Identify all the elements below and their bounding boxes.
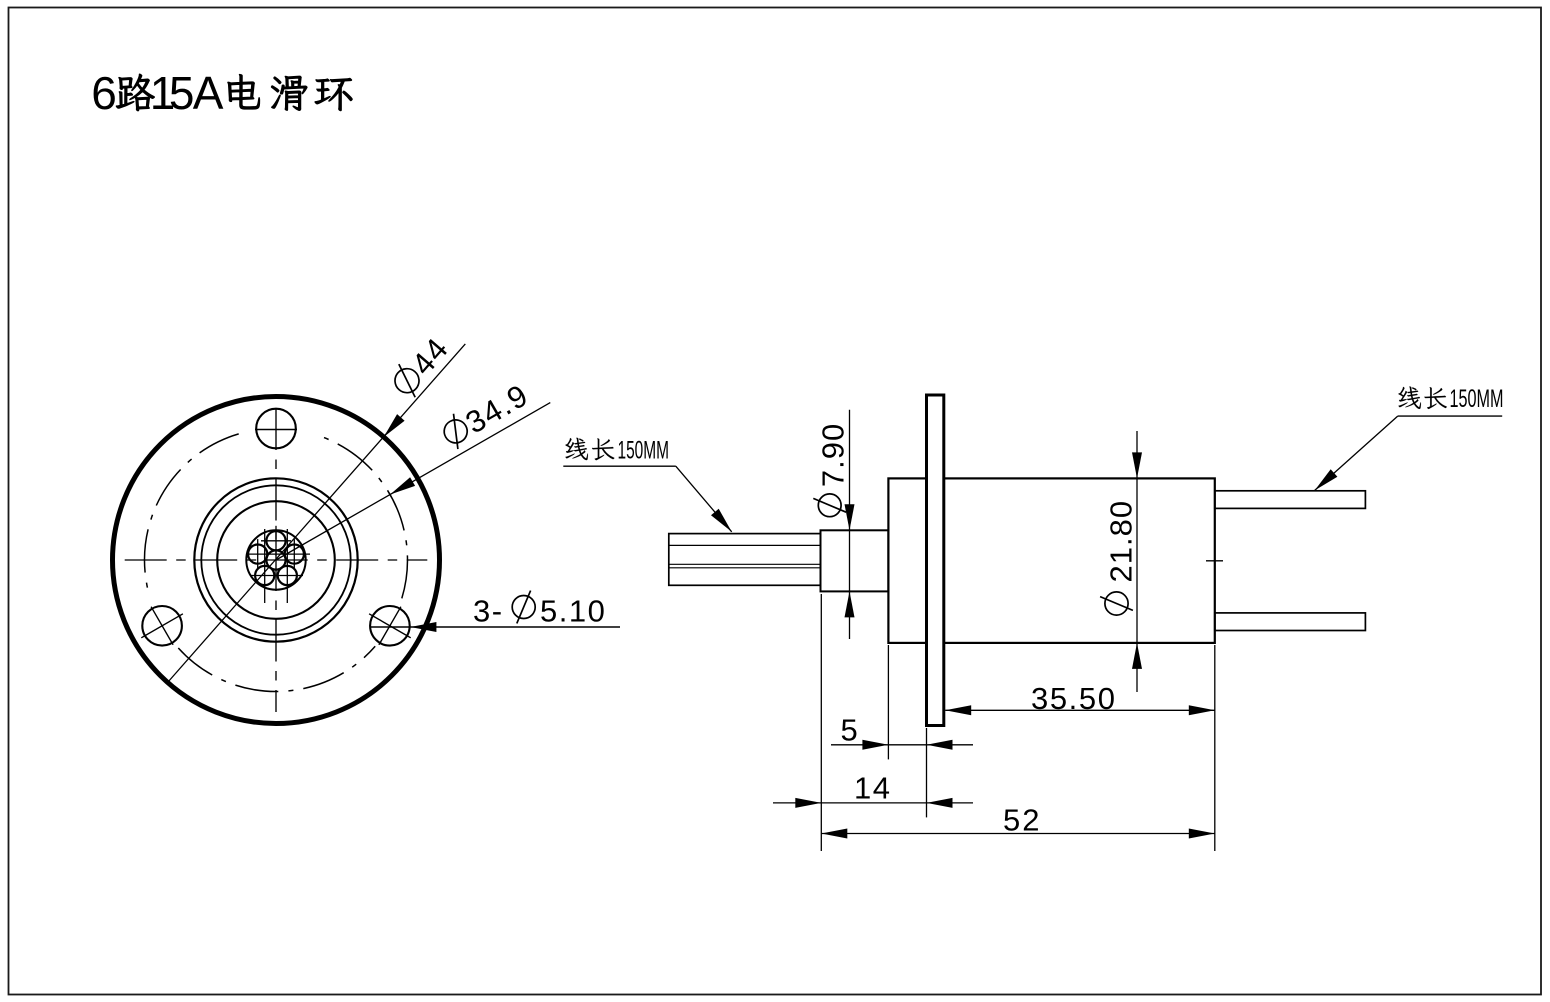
front view: top bolt hole xyxy=(255,409,297,449)
label wire length 150MM right xyxy=(1315,385,1504,490)
label wire length 150MM left xyxy=(563,437,731,532)
dimension leader D34.9 xyxy=(276,377,550,560)
svg-text:5: 5 xyxy=(169,67,195,119)
extension line shaft-left xyxy=(820,594,822,851)
svg-text:6: 6 xyxy=(91,67,117,119)
front view: lower-right bolt hole xyxy=(369,606,411,646)
extension line body-left xyxy=(887,645,889,759)
svg-text:14: 14 xyxy=(854,771,891,806)
dimension 35.50 xyxy=(945,681,1215,716)
front view: inner circle 2 xyxy=(217,501,335,619)
dimension D21.80 xyxy=(1100,431,1142,692)
front view: lower-left bolt hole xyxy=(141,606,183,646)
svg-text:52: 52 xyxy=(1003,803,1041,838)
side view: centerline tick at right edge xyxy=(1206,560,1223,562)
svg-text:3-: 3- xyxy=(473,594,504,629)
side view: body cylinder xyxy=(888,478,1214,643)
dimension leader D44 xyxy=(168,330,465,682)
front view: inner circle xyxy=(201,485,350,634)
side view: shaft collar D7.9 xyxy=(821,530,889,591)
front view: flange outer circle D44 xyxy=(113,397,440,724)
front view: body circle D21.8 xyxy=(194,478,357,641)
front view: horizontal centerline xyxy=(125,559,428,561)
title text: 6路15A电滑环 xyxy=(91,67,352,119)
svg-text:7.90: 7.90 xyxy=(816,423,851,487)
svg-text:35.50: 35.50 xyxy=(1031,681,1117,716)
extension line flange-left xyxy=(926,728,928,817)
svg-text:150MM: 150MM xyxy=(618,437,670,465)
svg-text:5: 5 xyxy=(841,713,858,748)
dimension 14 xyxy=(773,771,973,808)
front view: bolt circle D34.9 dash-dot xyxy=(144,434,407,692)
extension line body-right xyxy=(1214,645,1216,851)
dimension 5 xyxy=(831,713,973,750)
svg-text:A: A xyxy=(193,67,224,119)
front view: wire cross lines xyxy=(246,526,310,603)
front view: wire cluster circle xyxy=(246,530,305,589)
dimension D7.90 xyxy=(813,410,854,639)
svg-text:21.80: 21.80 xyxy=(1104,500,1139,583)
front view: vertical centerline xyxy=(275,408,277,712)
svg-text:150MM: 150MM xyxy=(1450,385,1504,413)
front view: six wire circles xyxy=(248,531,304,585)
side view: flange plate edge-on xyxy=(927,395,944,726)
side view: left wire bundle xyxy=(669,534,821,586)
side view: right top wire xyxy=(1215,491,1366,509)
side view: right bottom wire xyxy=(1215,613,1366,631)
dimension label 3-D5.10 xyxy=(371,591,621,632)
dimension 52 xyxy=(821,803,1215,839)
svg-text:5.10: 5.10 xyxy=(540,594,606,629)
